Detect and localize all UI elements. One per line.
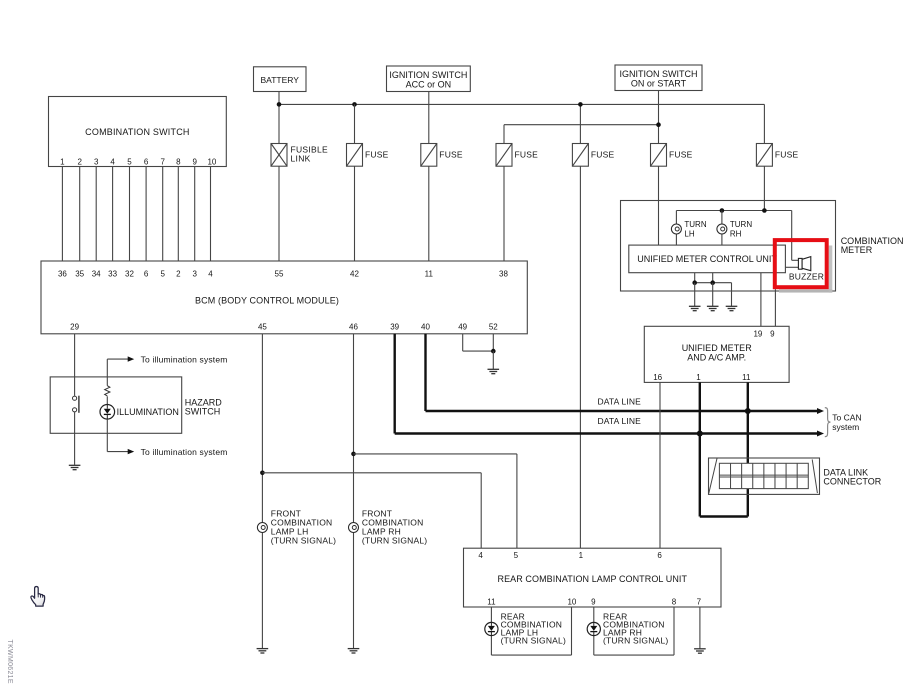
svg-text:METER: METER (841, 245, 873, 255)
svg-text:9: 9 (192, 157, 197, 166)
svg-text:6: 6 (657, 551, 662, 560)
svg-text:TURN: TURN (684, 220, 706, 229)
svg-text:system: system (832, 422, 859, 432)
svg-text:2: 2 (77, 157, 82, 166)
svg-text:COMBINATION SWITCH: COMBINATION SWITCH (85, 127, 189, 137)
svg-text:BCM (BODY CONTROL MODULE): BCM (BODY CONTROL MODULE) (195, 295, 339, 305)
svg-text:DATA LINE: DATA LINE (597, 396, 641, 406)
svg-text:3: 3 (94, 157, 99, 166)
svg-text:CONNECTOR: CONNECTOR (823, 477, 881, 487)
svg-text:REAR COMBINATION LAMP CONTROL: REAR COMBINATION LAMP CONTROL UNIT (498, 574, 688, 584)
svg-text:8: 8 (176, 157, 181, 166)
svg-text:ACC or ON: ACC or ON (406, 80, 452, 90)
svg-text:9: 9 (770, 330, 775, 339)
svg-text:5: 5 (514, 551, 519, 560)
svg-text:(TURN SIGNAL): (TURN SIGNAL) (271, 535, 336, 545)
svg-text:3: 3 (192, 270, 197, 279)
svg-text:45: 45 (258, 322, 267, 331)
svg-text:7: 7 (160, 157, 165, 166)
svg-text:46: 46 (349, 322, 358, 331)
svg-text:DATA LINE: DATA LINE (597, 416, 641, 426)
svg-text:6: 6 (144, 157, 149, 166)
svg-text:2: 2 (176, 270, 181, 279)
svg-text:36: 36 (58, 270, 67, 279)
svg-text:1: 1 (696, 373, 701, 382)
svg-text:5: 5 (160, 270, 165, 279)
svg-text:(TURN SIGNAL): (TURN SIGNAL) (501, 636, 566, 646)
svg-text:TKWM0621E: TKWM0621E (6, 640, 13, 684)
svg-text:5: 5 (127, 157, 132, 166)
svg-text:6: 6 (144, 270, 149, 279)
svg-text:FUSE: FUSE (439, 149, 463, 159)
svg-text:SWITCH: SWITCH (185, 406, 221, 416)
svg-text:To CAN: To CAN (832, 413, 861, 423)
svg-text:32: 32 (125, 270, 134, 279)
svg-text:40: 40 (421, 322, 430, 331)
svg-text:42: 42 (350, 270, 359, 279)
svg-text:1: 1 (579, 551, 584, 560)
svg-text:(TURN SIGNAL): (TURN SIGNAL) (362, 535, 427, 545)
svg-text:FUSE: FUSE (775, 149, 799, 159)
svg-text:TURN: TURN (730, 220, 752, 229)
svg-text:4: 4 (478, 551, 483, 560)
svg-text:ILLUMINATION: ILLUMINATION (117, 407, 179, 417)
svg-text:(TURN SIGNAL): (TURN SIGNAL) (603, 636, 668, 646)
svg-text:ON or START: ON or START (631, 79, 687, 89)
svg-text:LH: LH (684, 229, 694, 238)
svg-text:UNIFIED METER CONTROL UNIT: UNIFIED METER CONTROL UNIT (637, 254, 777, 264)
svg-text:8: 8 (672, 598, 677, 607)
svg-text:RH: RH (730, 229, 742, 238)
svg-text:4: 4 (110, 157, 115, 166)
svg-text:34: 34 (92, 270, 101, 279)
svg-text:55: 55 (275, 270, 284, 279)
svg-text:BUZZER: BUZZER (789, 272, 824, 282)
svg-text:11: 11 (425, 270, 434, 279)
svg-text:LINK: LINK (291, 154, 311, 164)
svg-text:BATTERY: BATTERY (260, 75, 299, 85)
svg-text:UNIFIED METER: UNIFIED METER (682, 343, 753, 353)
svg-text:49: 49 (458, 322, 467, 331)
svg-text:To illumination system: To illumination system (141, 354, 228, 364)
svg-text:33: 33 (108, 270, 117, 279)
svg-text:16: 16 (653, 373, 662, 382)
svg-text:FUSE: FUSE (365, 149, 389, 159)
svg-text:9: 9 (591, 598, 596, 607)
svg-text:52: 52 (489, 322, 498, 331)
svg-text:11: 11 (742, 373, 751, 382)
svg-text:To illumination system: To illumination system (141, 447, 228, 457)
svg-text:FUSE: FUSE (669, 149, 693, 159)
svg-text:7: 7 (697, 598, 702, 607)
svg-text:1: 1 (60, 157, 65, 166)
svg-text:10: 10 (207, 157, 216, 166)
svg-text:FUSE: FUSE (515, 149, 539, 159)
svg-text:FUSE: FUSE (591, 149, 615, 159)
svg-text:19: 19 (753, 330, 762, 339)
svg-text:10: 10 (567, 598, 576, 607)
svg-text:39: 39 (390, 322, 399, 331)
svg-text:35: 35 (75, 270, 84, 279)
svg-text:29: 29 (70, 322, 79, 331)
svg-text:11: 11 (487, 598, 496, 607)
svg-text:38: 38 (499, 270, 508, 279)
svg-text:AND A/C AMP.: AND A/C AMP. (687, 352, 746, 362)
svg-text:4: 4 (208, 270, 213, 279)
